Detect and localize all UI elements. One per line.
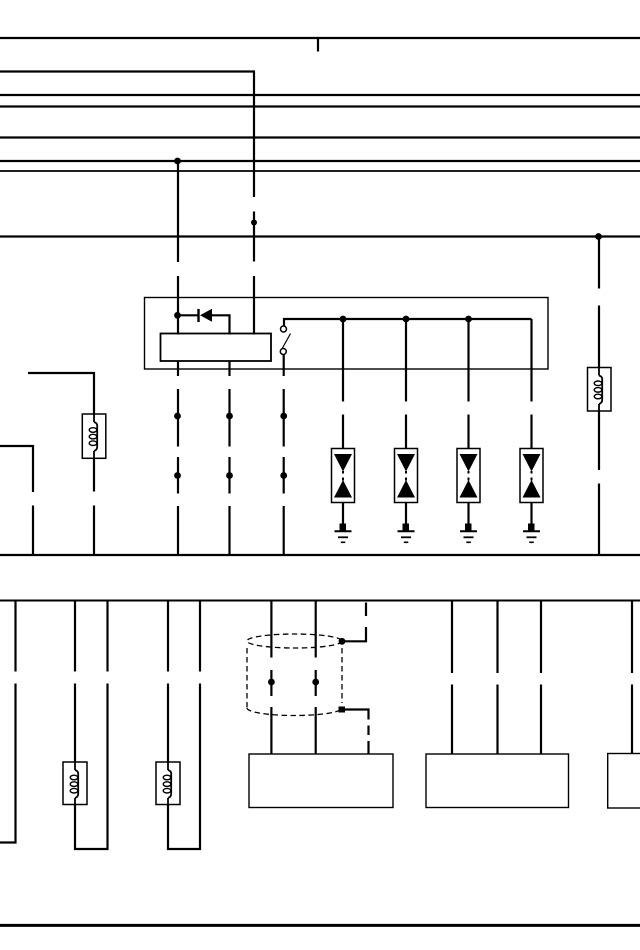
node A junction dot on bus line 6 bbox=[174, 158, 181, 165]
bus line 11 (bottom, thick) bbox=[0, 924, 640, 927]
relay coil box K1 (inner box) bbox=[161, 334, 272, 362]
lower wire x=15.5 bbox=[14, 601, 16, 844]
suppressor V3 triangles bbox=[460, 454, 478, 498]
switch S1 blade bbox=[283, 334, 291, 349]
suppressor V1 box bbox=[332, 449, 355, 503]
diode D1 cathode bar bbox=[197, 309, 199, 322]
switch S1 bottom contact circle bbox=[280, 349, 286, 355]
lower wire x=75 bbox=[74, 601, 76, 763]
diode D1 triangle bbox=[200, 309, 212, 322]
shield top tap: dot, wire right and up bbox=[339, 638, 346, 645]
switch S1 lower wire bbox=[283, 355, 285, 377]
connector dots on wire x=283.7 bbox=[280, 413, 287, 420]
dashed wire x=229.5 below box bbox=[228, 389, 230, 556]
bus line 4 bbox=[0, 105, 640, 107]
shield cylinder (dashed) bbox=[247, 634, 342, 716]
diode D1 anode wire bbox=[178, 314, 198, 316]
bus line 6 bbox=[0, 160, 640, 162]
fuse/coil F1 box at x=94 bbox=[82, 414, 106, 458]
lower wire x=315.7 (through shield) bbox=[315, 601, 317, 755]
terminal tick on bus line 1 bbox=[317, 38, 319, 52]
suppressor V2 box bbox=[395, 449, 418, 503]
junction dot at x=343 on switch line bbox=[340, 316, 347, 323]
bus line 2 (ends at corner x=254) bbox=[0, 70, 255, 72]
shield bottom tap: dot, wire right and down bbox=[339, 707, 346, 713]
ground G1 bbox=[335, 524, 352, 543]
ground G4 bbox=[523, 524, 540, 543]
wire below F2 (dashed) bbox=[598, 411, 600, 556]
diode junction dot on x=178 bbox=[174, 312, 181, 319]
bus line 1 (top) bbox=[0, 37, 640, 39]
suppressor V1 lower wire bbox=[342, 503, 344, 525]
ground G2 bbox=[398, 524, 415, 543]
suppressor V4 lower wire bbox=[530, 503, 532, 525]
dashes down to box at x=368.5 bbox=[367, 726, 369, 755]
bus line 8 bbox=[0, 235, 640, 237]
ground G3 bbox=[460, 524, 477, 543]
lower wire x=452 bbox=[451, 601, 453, 755]
bus line 7 bbox=[0, 170, 640, 172]
wire below L2 and U-link bbox=[168, 684, 200, 850]
dashed wire x=283.7 below box bbox=[283, 389, 285, 556]
lower wire x=168 bbox=[167, 601, 169, 763]
connector dot on x=271.4 bbox=[268, 679, 275, 686]
bus line 10 bbox=[0, 600, 640, 602]
lower wire x=107.5 upper dash bbox=[106, 601, 108, 672]
lower wire x=632 bbox=[631, 601, 633, 755]
bus line 5 bbox=[0, 136, 640, 138]
wire from bus line 2 down at x=254 (dashed) bbox=[253, 72, 255, 335]
coil glyph L2 bbox=[168, 762, 171, 805]
wire from inner box bottom x=178 bbox=[177, 361, 179, 376]
diode D1 output wire to corner bbox=[212, 315, 230, 334]
wire drop x=531.5 (corner from switch line) bbox=[530, 319, 532, 449]
component box B2 bbox=[426, 754, 569, 808]
wire from node A down at x=178 (dashed) bbox=[177, 161, 179, 335]
component box B3 (cut off at right) bbox=[608, 754, 640, 809]
suppressor V2 triangles bbox=[397, 454, 415, 498]
wire drop x=343 bbox=[342, 319, 344, 449]
dashed wire x=178 below box bbox=[177, 389, 179, 556]
coil glyph L1 bbox=[75, 762, 78, 805]
connector dots on wire x=229.5 bbox=[226, 413, 233, 420]
connector dot on wire x=254 bbox=[251, 220, 257, 226]
connector dots on wire x=178 bbox=[174, 413, 181, 420]
wire drop x=468.5 bbox=[467, 319, 469, 449]
wire from node B down to coil F2 (dashed) bbox=[598, 237, 600, 368]
junction dot at x=468.5 on switch line bbox=[465, 316, 472, 323]
switch S1 contact arm corner wire bbox=[284, 319, 532, 326]
bus line 9 bbox=[0, 554, 640, 556]
lower wire x=541 bbox=[540, 601, 542, 755]
suppressor V3 lower wire bbox=[467, 503, 469, 525]
fuse/coil F2 box at x=599 bbox=[588, 368, 612, 412]
dash from bus line 10 at x=366 bbox=[365, 603, 367, 617]
coil L2 box at x=168 bbox=[156, 762, 180, 805]
connector dot on x=315.7 bbox=[312, 679, 319, 686]
stub wire at left y=373 bbox=[28, 373, 94, 415]
wire from inner box bottom x=229.5 bbox=[228, 361, 230, 376]
lower wire x=200 upper dash bbox=[199, 601, 201, 672]
coil L1 box at x=75 bbox=[63, 762, 87, 805]
wire below F1 (dashed) bbox=[93, 458, 95, 556]
suppressor V2 lower wire bbox=[405, 503, 407, 525]
suppressor V4 triangles bbox=[523, 454, 541, 498]
coil glyph F1 bbox=[94, 414, 97, 458]
wire below L1 and U-link bbox=[75, 684, 108, 850]
suppressor V3 box bbox=[457, 449, 480, 503]
suppressor V1 triangles bbox=[334, 454, 352, 498]
lower wire x=497.5 bbox=[496, 601, 498, 755]
junction dot at x=406 on switch line bbox=[403, 316, 410, 323]
node B junction dot on bus line 8 bbox=[595, 233, 602, 240]
control unit box U1 (outer box) bbox=[145, 298, 549, 370]
continuation dash of x=33 wire bbox=[32, 506, 34, 557]
wire drop x=406 bbox=[405, 319, 407, 449]
lower wire x=271.4 (through shield) bbox=[270, 601, 272, 755]
wire from left edge y=446 bbox=[0, 446, 33, 492]
coil glyph F2 bbox=[599, 368, 602, 412]
suppressor V4 box bbox=[520, 449, 543, 503]
exit wire to left edge y=842.5 bbox=[0, 841, 17, 843]
component box B1 bbox=[249, 754, 393, 808]
switch S1 top contact circle bbox=[281, 326, 287, 332]
bus line 3 bbox=[0, 94, 640, 96]
